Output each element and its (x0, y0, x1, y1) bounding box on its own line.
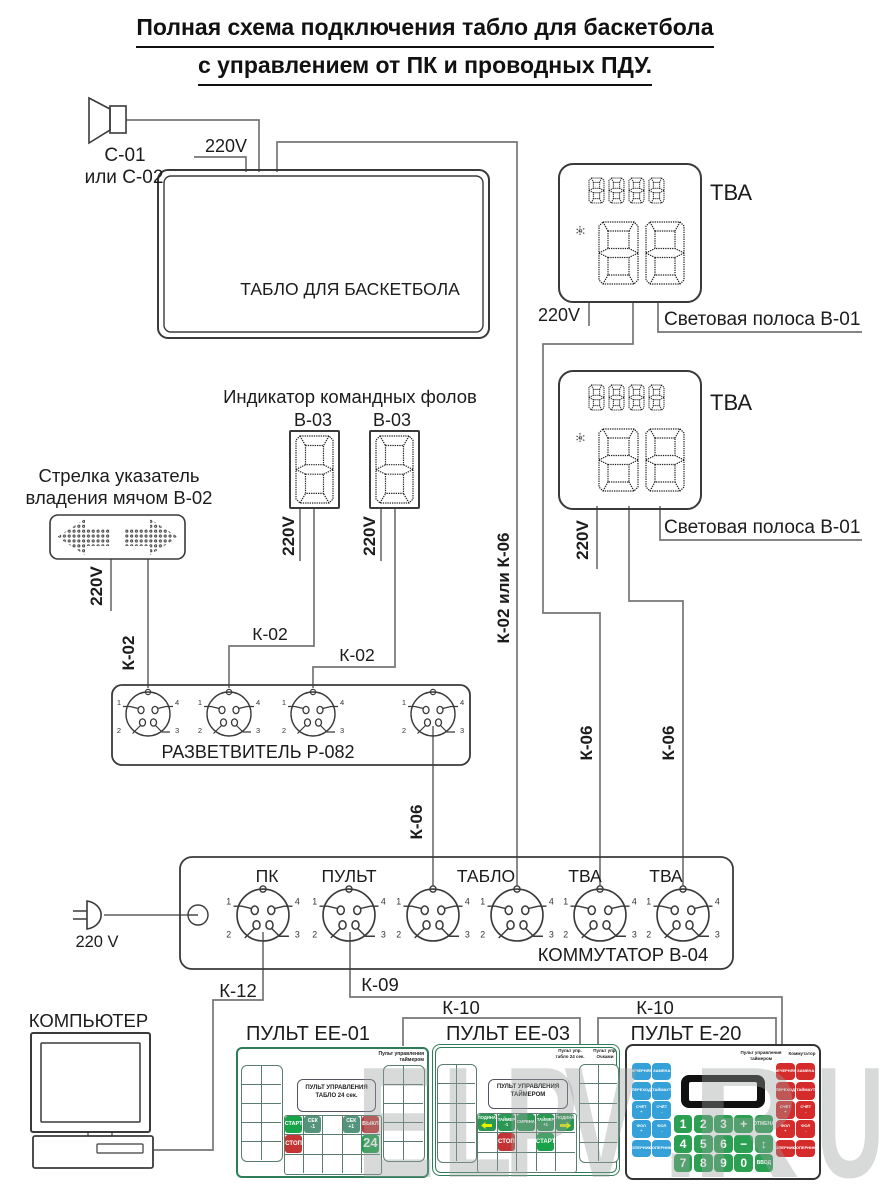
svg-text:E: E (356, 1034, 435, 1200)
svg-text:R: R (692, 1033, 800, 1200)
svg-text:V: V (564, 1034, 638, 1200)
svg-text:U: U (816, 1034, 884, 1200)
svg-text:L: L (442, 1035, 512, 1200)
